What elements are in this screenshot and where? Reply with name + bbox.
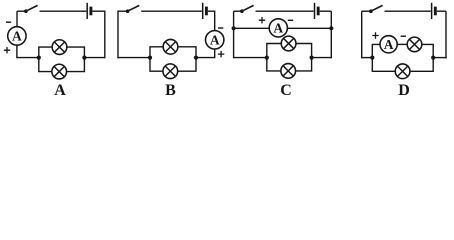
wire left vertical and top-left (B) (118, 11, 127, 58)
lamp L2 circle (C) (281, 64, 296, 79)
wire battery to top-right corner (B) (208, 11, 215, 31)
lamp L1 circle (C) (281, 36, 296, 51)
junction dot rail left (C) (265, 56, 269, 60)
svg-text:B: B (165, 82, 176, 99)
junction dot rail right (C) (310, 56, 314, 60)
switch S lever arm (D) (371, 5, 383, 11)
wire bottom branch right (A) (67, 58, 85, 72)
wire battery to top-right corner (D) (437, 10, 446, 12)
lamp L2 circle (B) (163, 64, 178, 79)
wire left vertical (D) (361, 11, 363, 58)
lamp L2 circle (D) (395, 64, 410, 79)
wire bottom branch left (D) (372, 58, 395, 72)
wire bottom rail right segment (A) (84, 57, 105, 59)
wire battery to top-right corner (C) (320, 10, 332, 12)
wire ammeter rail left (C) (234, 27, 270, 29)
wire bottom rail right segment (D) (433, 57, 447, 59)
wire top-left to switch pivot (C) (234, 10, 242, 12)
lamp L1 cross (B) (165, 42, 175, 52)
wire ammeter rail right (C) (287, 27, 331, 29)
wire switch to battery (A) (40, 10, 87, 12)
lamp L1 cross (C) (283, 38, 293, 48)
battery negative short plate (C) (317, 7, 320, 16)
wire top branch left (C) (267, 44, 282, 58)
wire top branch left (B) (150, 47, 163, 58)
wire bottom branch left (C) (267, 58, 281, 71)
wire battery to top-right corner and right vertical (A) (92, 11, 104, 58)
wire top branch right (C) (296, 44, 312, 58)
wire top branch right (D) (422, 44, 433, 57)
battery negative short plate (D) (434, 7, 437, 16)
lamp L2 cross (B) (165, 66, 175, 76)
plus polarity label (C) (259, 17, 265, 23)
plus polarity label (D) (372, 32, 378, 38)
battery positive long plate (A) (86, 3, 88, 19)
battery negative short plate (A) (89, 7, 92, 16)
wire switch to battery (C) (256, 10, 314, 12)
wire top branch left (A) (39, 47, 52, 58)
wire right vertical (D) (445, 11, 447, 58)
switch S pivot dot (A) (24, 9, 28, 13)
wire bottom rail left segment (B) (117, 57, 150, 59)
wire top branch right (A) (67, 47, 85, 58)
switch S pivot dot (C) (240, 9, 244, 13)
svg-text:C: C (280, 82, 292, 99)
wire left vertical top to ammeter (A) (16, 11, 18, 27)
minus polarity label (A) (6, 21, 11, 23)
junction dot right (A) (82, 56, 86, 60)
ammeter circle (A) (8, 27, 26, 45)
plus polarity label (A) (4, 47, 10, 53)
switch S lever arm (B) (128, 5, 140, 11)
minus polarity label (D) (401, 35, 406, 37)
lamp L1 circle (A) (52, 40, 67, 55)
junction dot left (A) (37, 56, 41, 60)
svg-text:A: A (384, 37, 394, 52)
switch S pivot dot (B) (126, 9, 130, 13)
junction dot left (B) (148, 56, 152, 60)
wire switch to battery (B) (141, 10, 202, 12)
battery positive long plate (C) (314, 3, 316, 19)
junction dot ammeter rail right (C) (329, 26, 333, 30)
wire ammeter to bottom rail (A) (16, 45, 18, 58)
battery negative short plate (B) (205, 7, 208, 16)
wire ammeter to lamp (D) (397, 43, 407, 45)
wire bottom rail left segment (A) (16, 57, 39, 59)
switch S lever arm (C) (242, 5, 254, 11)
junction dot right (D) (431, 56, 435, 60)
lamp L2 cross (A) (54, 66, 64, 76)
battery positive long plate (B) (202, 3, 204, 19)
wire bottom branch right (B) (178, 58, 196, 72)
lamp L2 cross (C) (283, 66, 293, 76)
svg-text:A: A (210, 32, 220, 47)
ammeter circle (D) (380, 36, 397, 53)
wire bottom branch left (A) (39, 58, 52, 72)
lamp L1 cross (A) (54, 42, 64, 52)
junction dot ammeter rail left (C) (232, 26, 236, 30)
wire ammeter down to rail corner (B) (196, 49, 215, 58)
wire left vertical (C) (233, 11, 235, 58)
ammeter circle (C) (269, 19, 287, 37)
battery positive long plate (D) (431, 3, 433, 19)
wire bottom branch right (C) (296, 58, 312, 71)
wire top-left to switch pivot (A) (17, 10, 26, 12)
minus polarity label (B) (218, 27, 223, 29)
wire bottom rail left segment (C) (234, 57, 267, 59)
wire bottom branch left (B) (150, 58, 163, 72)
switch S pivot dot (D) (369, 9, 373, 13)
wire top branch left (D) (372, 44, 380, 57)
plus polarity label (B) (218, 51, 224, 57)
wire top branch right (B) (178, 47, 196, 58)
svg-text:A: A (12, 28, 22, 43)
lamp L1 cross (D) (409, 39, 419, 49)
svg-text:A: A (273, 20, 283, 35)
wire bottom rail left segment (D) (362, 57, 373, 59)
lamp L1 circle (B) (163, 39, 178, 54)
lamp L2 circle (A) (52, 64, 67, 79)
switch S lever arm (A) (26, 5, 38, 11)
junction dot right (B) (194, 56, 198, 60)
lamp L1 circle (D) (407, 37, 422, 52)
minus polarity label (C) (288, 19, 293, 21)
wire right vertical (C) (330, 11, 332, 58)
wire switch to battery (D) (385, 10, 431, 12)
svg-text:A: A (54, 82, 66, 99)
wire bottom rail right segment (C) (312, 57, 332, 59)
wire bottom branch right (D) (410, 58, 433, 72)
lamp L2 cross (D) (397, 66, 407, 76)
svg-text:D: D (398, 82, 410, 99)
junction dot left (D) (370, 56, 374, 60)
ammeter circle (B) (206, 31, 224, 49)
wire top-left to switch pivot (D) (362, 10, 371, 12)
